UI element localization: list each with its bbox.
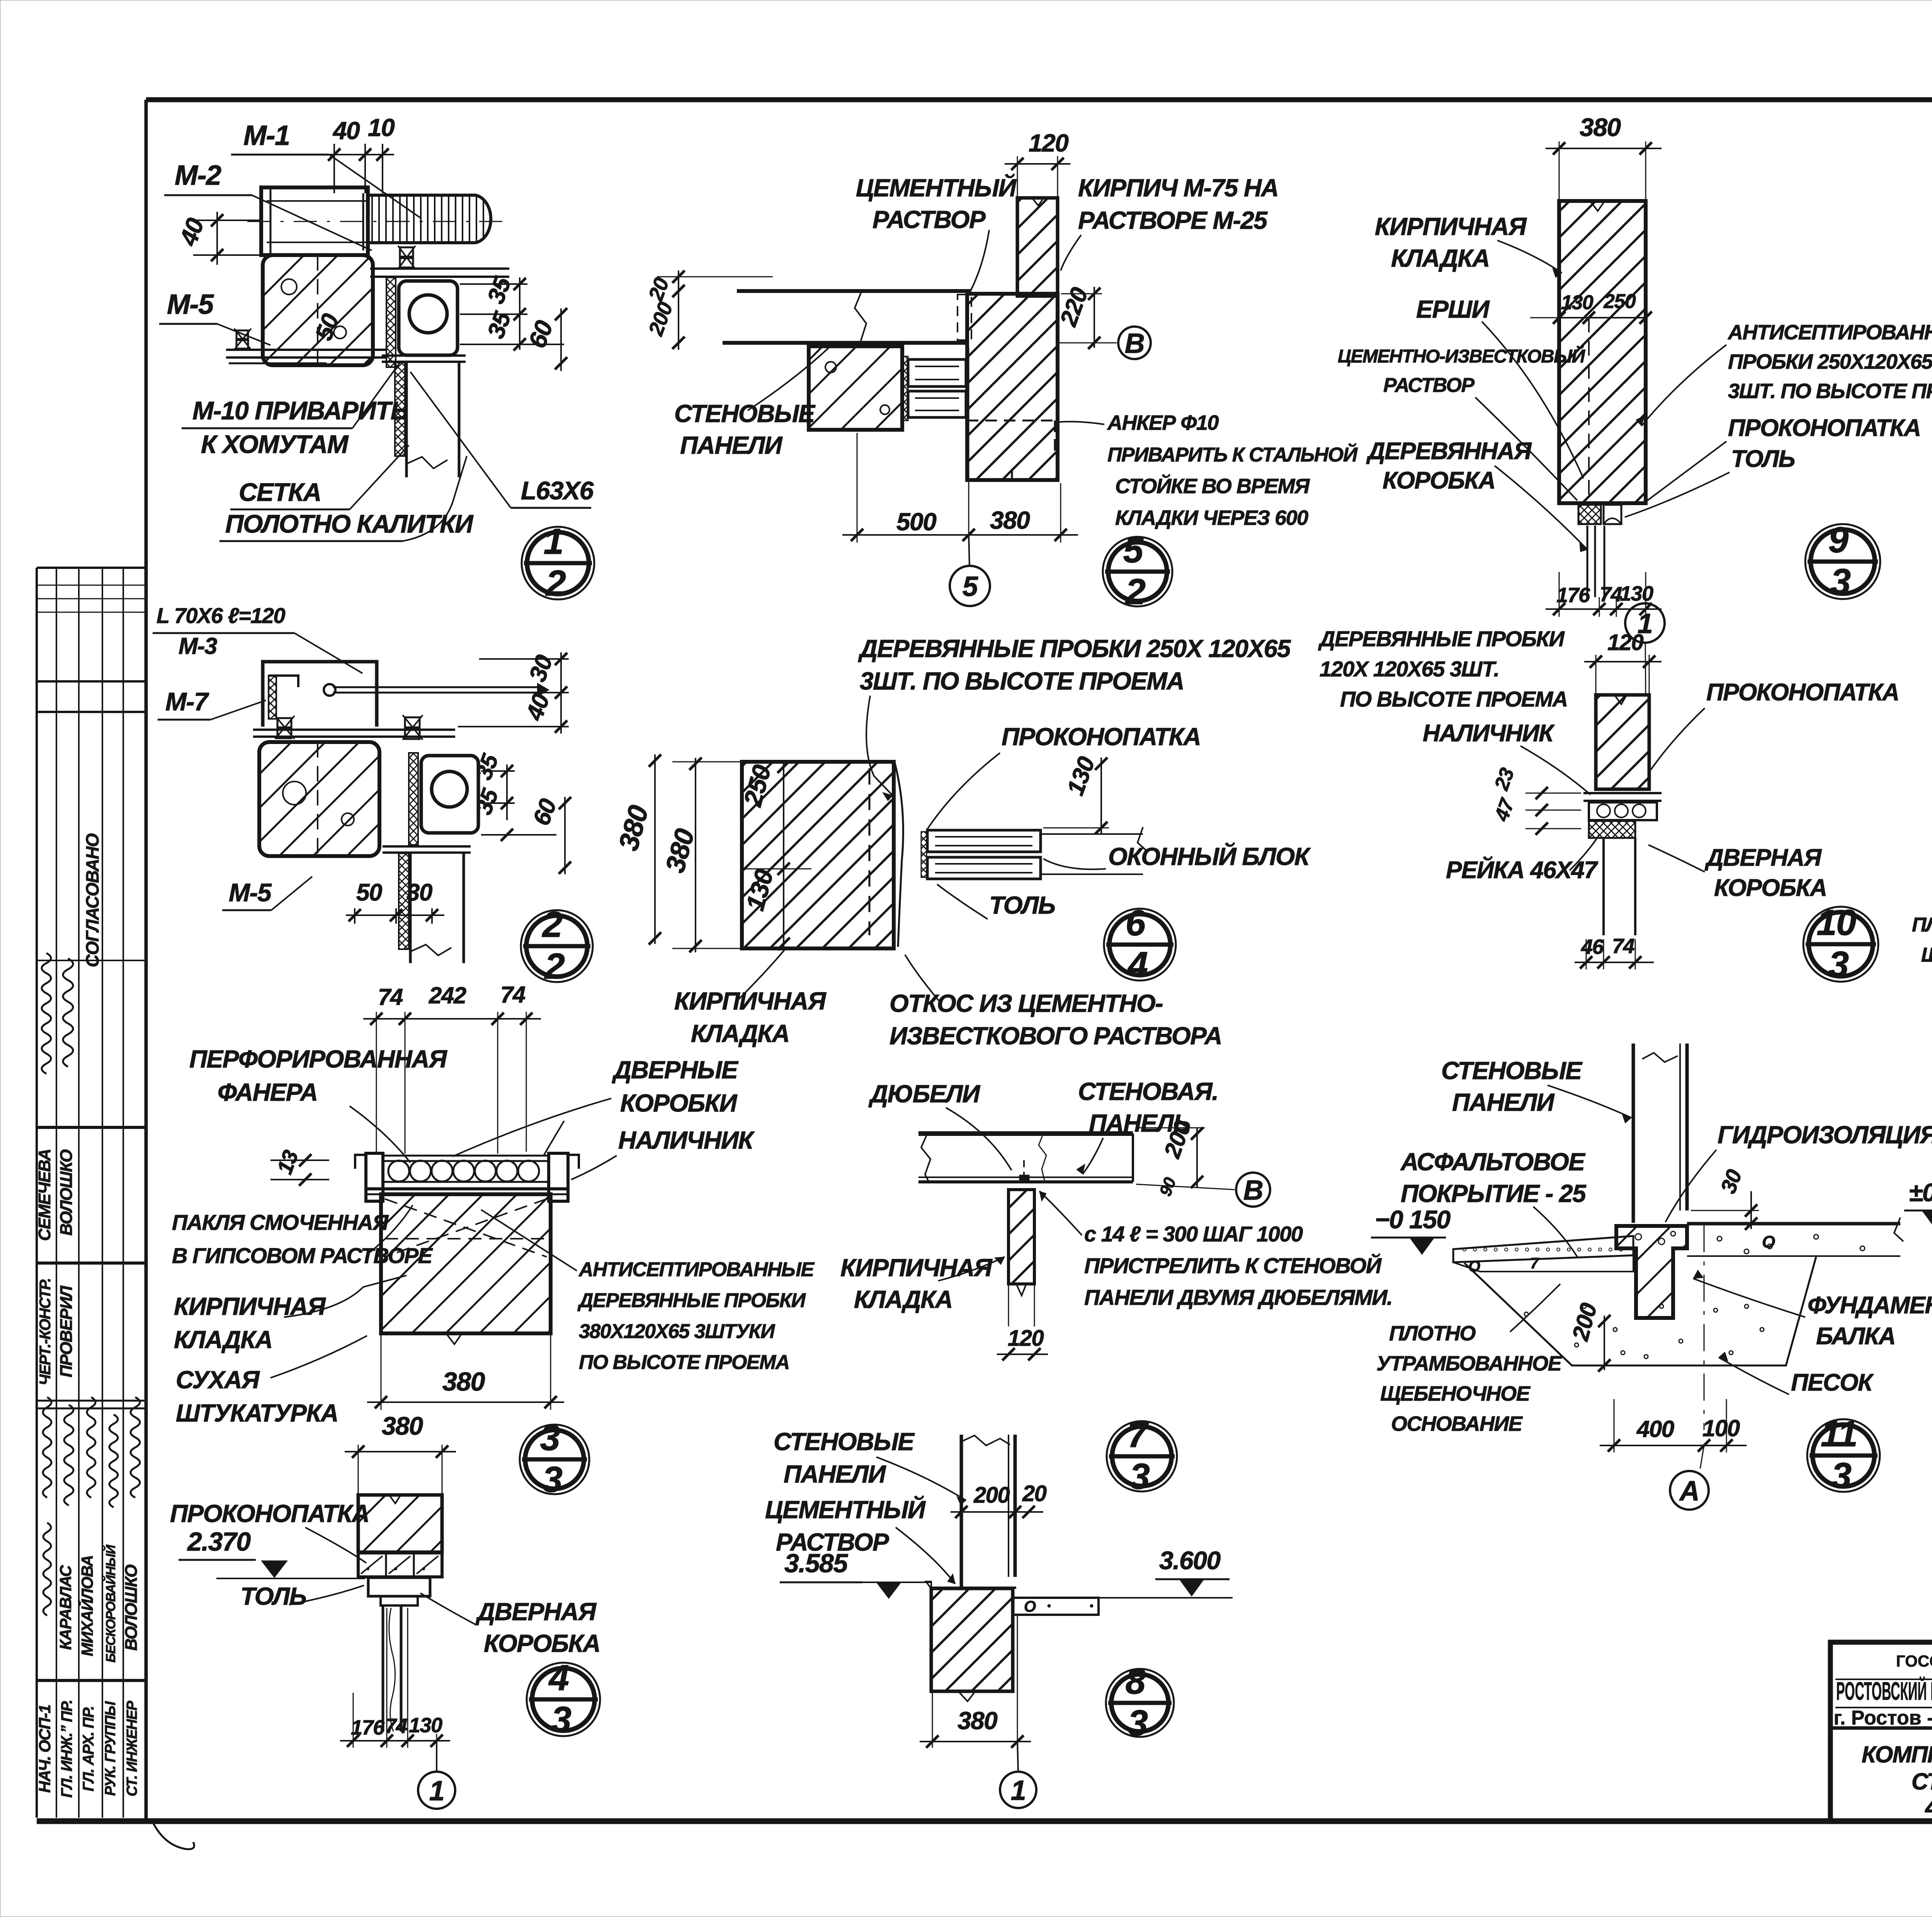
- detail 2: bubble 2/2: [521, 910, 593, 982]
- svg-text:3.600: 3.600: [1159, 1546, 1221, 1575]
- detail 5: window frame members: [908, 359, 966, 386]
- svg-text:КИРПИЧНАЯ: КИРПИЧНАЯ: [1375, 213, 1527, 240]
- svg-text:ПАНЕЛИ: ПАНЕЛИ: [784, 1460, 886, 1488]
- svg-text:КЛАДКА: КЛАДКА: [691, 1020, 789, 1047]
- detail 3: door head assembly: [355, 1155, 366, 1169]
- svg-text:ОКОННЫЙ БЛОК: ОКОННЫЙ БЛОК: [1108, 842, 1311, 870]
- detail 1: gate post below: [382, 354, 466, 357]
- svg-text:1: 1: [1011, 1775, 1026, 1806]
- svg-text:ВОЛОШКО: ВОЛОШКО: [57, 1149, 76, 1236]
- svg-text:ГОССТРОЙ СССР: ГОССТРОЙ СССР: [1896, 1651, 1932, 1670]
- svg-text:.: .: [366, 1556, 370, 1573]
- svg-text:АНТИСЕПТИРОВАННЫЕ: АНТИСЕПТИРОВАННЫЕ: [1727, 321, 1932, 344]
- svg-text:ПОКРЫТИЕ - 25: ПОКРЫТИЕ - 25: [1401, 1180, 1587, 1207]
- title block org cell divider: [1830, 1726, 1932, 1730]
- detail 6: bubble 6/4: [1104, 909, 1176, 981]
- detail 5: axis line to node B: [1058, 342, 1117, 344]
- detail 11: base course under asphalt: [1453, 1255, 1633, 1272]
- detail 5: bubble 5/2: [1103, 537, 1172, 606]
- detail 2: tie rod: [333, 686, 538, 688]
- svg-text:СТЕНОВЫЕ: СТЕНОВЫЕ: [674, 400, 816, 427]
- svg-text:380Х120Х65 3ШТУКИ: 380Х120Х65 3ШТУКИ: [579, 1320, 776, 1343]
- svg-text:ШТУКАТУРКА: ШТУКАТУРКА: [176, 1399, 338, 1427]
- detail 11: foundation beam (hatched): [1616, 1226, 1687, 1318]
- detail 7: wall panel section: [918, 1131, 1133, 1136]
- svg-text:М-5: М-5: [229, 878, 272, 907]
- svg-text:ПАКЛЯ СМОЧЕННАЯ: ПАКЛЯ СМОЧЕННАЯ: [172, 1210, 389, 1234]
- detail 8: step block (hatched): [931, 1588, 1013, 1691]
- svg-text:КОРОБКА: КОРОБКА: [1383, 467, 1495, 494]
- svg-text:М-3: М-3: [179, 633, 217, 659]
- svg-text:ДВЕРНЫЕ: ДВЕРНЫЕ: [612, 1056, 739, 1084]
- stamp strip row line: [37, 1262, 146, 1265]
- detail 1: bubble 1/2: [522, 527, 594, 599]
- svg-text:2: 2: [1125, 571, 1146, 612]
- svg-text:НАЛИЧНИК: НАЛИЧНИК: [1423, 720, 1555, 747]
- svg-text:3: 3: [1829, 944, 1849, 984]
- svg-text:ЧЕРТ.-КОНСТР.: ЧЕРТ.-КОНСТР.: [37, 1279, 54, 1386]
- detail 11: axis line and node A: [1704, 1225, 1705, 1430]
- detail 9: brick wall (hatched): [1559, 201, 1646, 503]
- detail 8: roof slab strip: [1013, 1598, 1099, 1615]
- svg-text:ПЕСОК: ПЕСОК: [1791, 1369, 1874, 1396]
- svg-text:ДЮБЕЛИ: ДЮБЕЛИ: [868, 1080, 981, 1108]
- stamp name: Левицкий (script): [43, 1523, 51, 1616]
- svg-text:4К-30А: 4К-30А: [1924, 1793, 1932, 1821]
- svg-text:ФАНЕРА: ФАНЕРА: [218, 1078, 318, 1106]
- svg-text:КИРПИЧНАЯ: КИРПИЧНАЯ: [840, 1254, 993, 1282]
- detail 2: base bolts right: [405, 717, 420, 727]
- detail 5: wall panel (plan): [737, 289, 971, 293]
- svg-text:ГЛ. АРХ. ПР.: ГЛ. АРХ. ПР.: [80, 1706, 97, 1791]
- svg-text:КЛАДКА: КЛАДКА: [854, 1285, 952, 1313]
- svg-text:СТЕНОВАЯ.: СТЕНОВАЯ.: [1078, 1078, 1218, 1105]
- svg-text:8: 8: [1126, 1661, 1146, 1701]
- svg-text:ТОЛЬ: ТОЛЬ: [240, 1582, 306, 1610]
- svg-text:6: 6: [1126, 902, 1146, 943]
- svg-text:М-5: М-5: [167, 289, 214, 320]
- detail 5: node circle B: [1118, 327, 1151, 359]
- detail 1: gasket strip: [386, 278, 396, 367]
- svg-text:г. Ростов - на - Дону 1969 г.: г. Ростов - на - Дону 1969 г.: [1833, 1707, 1932, 1729]
- detail 7: axis to node B: [1136, 1184, 1235, 1190]
- svg-text:с 14 ℓ = 300 ШАГ 1000: с 14 ℓ = 300 ШАГ 1000: [1084, 1222, 1303, 1246]
- svg-text:НАЧ. ОСП-1: НАЧ. ОСП-1: [36, 1705, 54, 1793]
- svg-text:1: 1: [429, 1776, 444, 1806]
- svg-text:КЛАДКА: КЛАДКА: [174, 1326, 272, 1353]
- svg-text:В: В: [1125, 328, 1145, 359]
- detail 4: node circle 1: [436, 1741, 437, 1772]
- svg-text:М-10 ПРИВАРИТЬ: М-10 ПРИВАРИТЬ: [192, 396, 408, 425]
- detail 4: wood plugs row: [358, 1553, 442, 1577]
- detail 3: brick wall below head (hatched): [381, 1194, 551, 1333]
- svg-text:ПАНЕЛИ ДВУМЯ ДЮБЕЛЯМИ.: ПАНЕЛИ ДВУМЯ ДЮБЕЛЯМИ.: [1084, 1285, 1392, 1309]
- detail 1: channel beam M-1 section: [261, 187, 368, 255]
- svg-text:10: 10: [1816, 902, 1856, 943]
- title block outer box: [1830, 1642, 1932, 1821]
- detail 8: node circle 1: [1017, 1742, 1018, 1771]
- svg-text:ТОЛЬ: ТОЛЬ: [989, 891, 1055, 919]
- svg-text:СТЕНОВЫЕ: СТЕНОВЫЕ: [1441, 1057, 1583, 1084]
- svg-text:АСФАЛЬТОВОЕ: АСФАЛЬТОВОЕ: [1400, 1148, 1586, 1176]
- svg-text:СОГЛАСОВАНО: СОГЛАСОВАНО: [82, 833, 102, 967]
- svg-text:ДВЕРНАЯ: ДВЕРНАЯ: [1704, 844, 1822, 871]
- svg-text:ДЕРЕВЯННЫЕ ПРОБКИ: ДЕРЕВЯННЫЕ ПРОБКИ: [1318, 627, 1565, 651]
- svg-text:РАСТВОРЕ М-25: РАСТВОРЕ М-25: [1078, 206, 1268, 234]
- svg-text:ПРОВЕРИЛ: ПРОВЕРИЛ: [57, 1285, 76, 1377]
- detail 10: jamb assembly: [1583, 792, 1662, 794]
- svg-text:176: 176: [1556, 584, 1590, 607]
- svg-text:10: 10: [368, 114, 395, 141]
- stamp strip column line 2: [78, 568, 80, 1818]
- svg-text:2: 2: [545, 563, 566, 603]
- detail 8: bottom break: [931, 1691, 1013, 1701]
- svg-text:ПЛОТНО: ПЛОТНО: [1389, 1322, 1476, 1345]
- svg-text:7: 7: [1128, 1414, 1149, 1455]
- svg-text:3ШТ. ПО ВЫСОТЕ ПРОЕМА: 3ШТ. ПО ВЫСОТЕ ПРОЕМА: [1728, 380, 1932, 403]
- detail 7: node circle B: [1236, 1173, 1270, 1207]
- svg-text:ОТКОС ИЗ ЦЕМЕНТНО-: ОТКОС ИЗ ЦЕМЕНТНО-: [889, 989, 1163, 1017]
- svg-text:КИРПИЧНАЯ: КИРПИЧНАЯ: [174, 1292, 326, 1320]
- svg-text:В: В: [1243, 1175, 1263, 1206]
- svg-text:380: 380: [442, 1367, 485, 1396]
- svg-text:380: 380: [382, 1411, 423, 1440]
- svg-text:ДЕРЕВЯННЫЕ ПРОБКИ: ДЕРЕВЯННЫЕ ПРОБКИ: [577, 1289, 806, 1312]
- svg-text:74: 74: [500, 982, 526, 1008]
- detail 2: hinge eye plate: [421, 756, 478, 833]
- svg-text:130: 130: [409, 1714, 442, 1737]
- svg-text:НАЛИЧНИК: НАЛИЧНИК: [618, 1126, 755, 1154]
- svg-text:11: 11: [1821, 1413, 1857, 1454]
- svg-text:3: 3: [551, 1699, 571, 1740]
- svg-text:ПРОКОНОПАТКА: ПРОКОНОПАТКА: [170, 1500, 369, 1527]
- svg-text:СТАНЦИЯ: СТАНЦИЯ: [1912, 1769, 1932, 1794]
- svg-text:ПО ВЫСОТЕ ПРОЕМА: ПО ВЫСОТЕ ПРОЕМА: [579, 1351, 789, 1374]
- svg-text:ЩЕБЕНОЧНОЕ: ЩЕБЕНОЧНОЕ: [1380, 1382, 1531, 1405]
- detail 3: bottom break line: [381, 1334, 551, 1344]
- svg-text:46: 46: [1581, 935, 1604, 958]
- svg-text:120: 120: [1607, 630, 1644, 655]
- svg-text:СЕТКА: СЕТКА: [239, 478, 321, 506]
- svg-text:А: А: [1679, 1476, 1699, 1507]
- stamp strip row line: [37, 960, 146, 961]
- svg-text:ВОЛОШКО: ВОЛОШКО: [122, 1565, 141, 1651]
- svg-text:176: 176: [351, 1716, 385, 1739]
- svg-text:РЕЙКА 46Х47: РЕЙКА 46Х47: [1446, 856, 1598, 884]
- svg-text:КОРОБКА: КОРОБКА: [1714, 875, 1827, 901]
- svg-text:2: 2: [544, 946, 565, 986]
- stamp signature Волошко (script): [63, 958, 73, 1067]
- svg-text:1: 1: [544, 521, 563, 562]
- svg-text:3: 3: [1832, 1455, 1852, 1496]
- svg-text:ПРОКОНОПАТКА: ПРОКОНОПАТКА: [1002, 723, 1201, 751]
- svg-text:АНКЕР Ф10: АНКЕР Ф10: [1107, 411, 1219, 434]
- svg-text:РУК. ГРУППЫ: РУК. ГРУППЫ: [102, 1701, 119, 1796]
- svg-text:СТОЙКЕ ВО ВРЕМЯ: СТОЙКЕ ВО ВРЕМЯ: [1115, 474, 1310, 498]
- svg-text:ГИДРОИЗОЛЯЦИЯ: ГИДРОИЗОЛЯЦИЯ: [1718, 1121, 1932, 1149]
- detail 11: bubble 11/3: [1807, 1419, 1880, 1492]
- svg-text:БЕСКОРОВАЙНЫЙ: БЕСКОРОВАЙНЫЙ: [103, 1544, 118, 1662]
- detail 10: brick pier (hatched): [1596, 695, 1649, 789]
- detail 2: bracket base plate: [253, 729, 455, 731]
- svg-text:380: 380: [990, 506, 1030, 534]
- detail 11: asphalt wedge left: [1453, 1236, 1633, 1262]
- detail 1: clamp plate under beam: [370, 267, 509, 270]
- stamp signature row 2 scripts: [43, 1397, 51, 1498]
- svg-text:ФУНДАМЕНТНАЯ: ФУНДАМЕНТНАЯ: [1808, 1292, 1932, 1319]
- svg-text:100: 100: [1702, 1415, 1740, 1441]
- svg-text:М-7: М-7: [165, 687, 209, 716]
- svg-text:3: 3: [540, 1417, 560, 1458]
- svg-text:ПРИСТРЕЛИТЬ К СТЕНОВОЙ: ПРИСТРЕЛИТЬ К СТЕНОВОЙ: [1084, 1253, 1382, 1278]
- detail 8: wall panel section: [960, 1435, 963, 1588]
- detail 5: bottom edge break: [967, 470, 1058, 480]
- svg-text:120: 120: [1029, 129, 1068, 157]
- svg-text:9: 9: [1828, 519, 1849, 560]
- svg-text:АНТИСЕПТИРОВАННЫЕ: АНТИСЕПТИРОВАННЫЕ: [578, 1258, 815, 1281]
- detail 5: masonry mass (hatched): [967, 294, 1058, 480]
- svg-text:СЕМЕЧЕВА: СЕМЕЧЕВА: [35, 1149, 54, 1241]
- svg-text:ПАНЕЛИ: ПАНЕЛИ: [1452, 1088, 1555, 1116]
- svg-text:ЦЕМЕНТНЫЙ: ЦЕМЕНТНЫЙ: [856, 173, 1017, 202]
- svg-text:МИХАЙЛОВА: МИХАЙЛОВА: [77, 1556, 96, 1657]
- svg-text:2: 2: [542, 904, 563, 945]
- svg-text:КЛАДКА: КЛАДКА: [1391, 244, 1490, 272]
- svg-text:КИРПИЧ М-75 НА: КИРПИЧ М-75 НА: [1078, 174, 1278, 202]
- detail 4: door frame head: [368, 1578, 430, 1596]
- left stamp strip outer lines: [37, 567, 146, 569]
- svg-text:74: 74: [1612, 935, 1635, 958]
- svg-text:500: 500: [896, 508, 936, 536]
- svg-text:СУХАЯ: СУХАЯ: [176, 1366, 260, 1394]
- detail 9: door frame below: [1587, 526, 1588, 597]
- sheet frame border: [146, 97, 1932, 102]
- svg-text:20: 20: [1022, 1481, 1047, 1506]
- svg-text:130: 130: [1561, 291, 1594, 314]
- stamp strip row line: [37, 680, 146, 683]
- detail 2: bracket channel: [263, 662, 377, 727]
- stamp strip double row line: [37, 1400, 146, 1402]
- stamp strip column line 4: [122, 568, 124, 1818]
- detail 2: base bolts left: [277, 718, 291, 727]
- detail 4: brick wall (hatched): [358, 1495, 442, 1552]
- svg-text:М-2: М-2: [175, 160, 221, 191]
- detail 10: leader from node circle: [1645, 643, 1646, 696]
- svg-text:130: 130: [1620, 582, 1653, 605]
- detail 1: clamp bolts: [400, 247, 413, 257]
- stamp signature Семечева (script): [42, 953, 51, 1074]
- signature flourish under frame: [153, 1822, 194, 1849]
- detail 6: plaster reveal edge: [895, 763, 903, 947]
- detail 6: window block section: [927, 830, 1041, 852]
- svg-text:ИЗВЕСТКОВОГО РАСТВОРА: ИЗВЕСТКОВОГО РАСТВОРА: [889, 1022, 1222, 1050]
- svg-text:ПРОКОНОПАТКА: ПРОКОНОПАТКА: [1728, 415, 1921, 441]
- detail 6: top extension line: [672, 761, 742, 763]
- detail 10: door frame below: [1602, 838, 1605, 935]
- svg-text:74: 74: [1600, 583, 1622, 606]
- detail 2: gasket strip: [409, 753, 418, 845]
- detail 2: gate post below: [383, 845, 471, 848]
- detail 10: bubble 10/3: [1803, 907, 1878, 982]
- svg-text:3.585: 3.585: [784, 1549, 848, 1578]
- svg-text:40: 40: [332, 117, 360, 145]
- svg-text:М-1: М-1: [243, 120, 290, 151]
- svg-text:ДЕРЕВЯННАЯ: ДЕРЕВЯННАЯ: [1366, 438, 1532, 465]
- svg-text:КЛАДКИ ЧЕРЕЗ 600: КЛАДКИ ЧЕРЕЗ 600: [1115, 506, 1308, 529]
- svg-text:ПАНЕЛИ: ПАНЕЛИ: [680, 431, 783, 459]
- stamp strip row line: [37, 711, 146, 713]
- svg-text:L63Х6: L63Х6: [521, 476, 594, 505]
- svg-text:120Х 120Х65 3ШТ.: 120Х 120Х65 3ШТ.: [1320, 657, 1499, 681]
- svg-text:О: О: [1024, 1598, 1036, 1615]
- detail 2: angle insert with hatch: [269, 676, 276, 719]
- svg-text:400: 400: [1636, 1416, 1674, 1442]
- svg-text:±0.000: ±0.000: [1909, 1178, 1932, 1207]
- detail 6: bottom extension line: [672, 948, 742, 949]
- svg-text:250: 250: [1603, 290, 1636, 313]
- svg-text:3: 3: [1130, 1456, 1150, 1496]
- svg-text:7: 7: [1530, 1255, 1539, 1272]
- svg-text:БАЛКА: БАЛКА: [1816, 1323, 1895, 1350]
- svg-text:120: 120: [1008, 1326, 1044, 1351]
- svg-text:КОМПРЕССОРНАЯ: КОМПРЕССОРНАЯ: [1862, 1742, 1932, 1767]
- detail 8: bubble 8/3: [1106, 1669, 1174, 1737]
- svg-text:РАСТВОР: РАСТВОР: [1383, 374, 1475, 397]
- detail 2: concrete post section (hatched): [259, 742, 379, 856]
- svg-text:380: 380: [957, 1707, 997, 1735]
- svg-text:КОРОБКИ: КОРОБКИ: [620, 1089, 738, 1117]
- detail 5: cement joint dashed: [957, 295, 971, 340]
- svg-text:КАРАВЛАС: КАРАВЛАС: [56, 1565, 75, 1650]
- detail 1: bottom angle bracket: [226, 349, 387, 351]
- svg-text:ЩЕБЕНОЧНОЕ ОСНОВАНИЕ: ЩЕБЕНОЧНОЕ ОСНОВАНИЕ: [1921, 944, 1932, 966]
- svg-text:200: 200: [973, 1483, 1010, 1508]
- detail 7: anchor plug: [1019, 1175, 1029, 1183]
- svg-text:ПРИВАРИТЬ К СТАЛЬНОЙ: ПРИВАРИТЬ К СТАЛЬНОЙ: [1107, 443, 1358, 466]
- svg-text:2.370: 2.370: [187, 1527, 251, 1556]
- detail 8: bubble 7/3: [1107, 1421, 1177, 1491]
- svg-text:ЦЕМЕНТНЫЙ: ЦЕМЕНТНЫЙ: [765, 1495, 926, 1524]
- svg-text:5: 5: [1123, 529, 1144, 570]
- svg-text:3: 3: [1128, 1702, 1148, 1743]
- svg-text:4: 4: [548, 1657, 569, 1698]
- svg-text:50: 50: [356, 879, 382, 906]
- svg-text:КОРОБКА: КОРОБКА: [484, 1629, 600, 1657]
- stamp strip column line 1: [56, 568, 57, 1818]
- svg-text:380: 380: [1580, 113, 1621, 141]
- svg-text:.: .: [394, 1556, 398, 1573]
- detail 9: bubble 9/3: [1805, 524, 1880, 599]
- detail 8: ledge and mortar joint: [930, 1587, 1016, 1589]
- detail 9: node circle 1: [1625, 603, 1665, 643]
- svg-text:ПО ВЫСОТЕ ПРОЕМА: ПО ВЫСОТЕ ПРОЕМА: [1340, 687, 1568, 711]
- svg-text:L 70Х6 ℓ=120: L 70Х6 ℓ=120: [156, 603, 285, 628]
- svg-text:ЕРШИ: ЕРШИ: [1416, 295, 1490, 323]
- svg-text:О: О: [1762, 1233, 1775, 1251]
- svg-text:3ШТ. ПО ВЫСОТЕ ПРОЕМА: 3ШТ. ПО ВЫСОТЕ ПРОЕМА: [860, 667, 1184, 695]
- detail 1: corrugated hose: [368, 195, 491, 243]
- svg-text:В ГИПСОВОМ РАСТВОРЕ: В ГИПСОВОМ РАСТВОРЕ: [172, 1243, 433, 1268]
- svg-text:ОСНОВАНИЕ: ОСНОВАНИЕ: [1391, 1412, 1523, 1435]
- detail 6: sill lines to right: [1041, 833, 1143, 835]
- svg-text:ПРОКОНОПАТКА: ПРОКОНОПАТКА: [1706, 679, 1899, 706]
- svg-text:−0 150: −0 150: [1375, 1205, 1451, 1234]
- detail 5: node circle 5: [969, 535, 969, 566]
- stamp strip row line: [37, 1679, 146, 1682]
- svg-text:ТОЛЬ: ТОЛЬ: [1731, 446, 1795, 472]
- svg-text:ДВЕРНАЯ: ДВЕРНАЯ: [475, 1598, 597, 1626]
- svg-text:74: 74: [385, 1714, 408, 1738]
- detail 5: anchor dashed: [967, 420, 1055, 422]
- svg-text:СТ. ИНЖЕНЕР: СТ. ИНЖЕНЕР: [124, 1701, 140, 1796]
- stamp strip row line: [37, 1126, 146, 1129]
- detail 7: brick pier below (hatched): [1009, 1190, 1034, 1284]
- svg-text:242: 242: [429, 982, 466, 1008]
- svg-text:ПЛОТНО УТРАМБОВАННОЕ: ПЛОТНО УТРАМБОВАННОЕ: [1912, 914, 1932, 936]
- svg-text:3: 3: [543, 1459, 563, 1500]
- detail 1: beam centre line: [247, 221, 502, 222]
- svg-text:РАСТВОР: РАСТВОР: [872, 206, 986, 233]
- svg-text:РОСТОВСКИЙ ПРОМСТРОЙНИИПРОЕКТ: РОСТОВСКИЙ ПРОМСТРОЙНИИПРОЕКТ: [1836, 1676, 1932, 1705]
- detail 6: brick jamb (hatched): [742, 762, 894, 948]
- svg-text:СТЕНОВЫЕ: СТЕНОВЫЕ: [774, 1428, 915, 1456]
- detail 4: door leaf with grain: [382, 1605, 384, 1731]
- svg-text:3: 3: [1831, 561, 1851, 602]
- stamp strip column line 3: [102, 568, 103, 1818]
- svg-text:ПОЛОТНО КАЛИТКИ: ПОЛОТНО КАЛИТКИ: [225, 509, 474, 538]
- svg-text:ПЕРФОРИРОВАННАЯ: ПЕРФОРИРОВАННАЯ: [189, 1045, 447, 1073]
- svg-text:ГЛ. ИНЖ.” ПР.: ГЛ. ИНЖ.” ПР.: [58, 1700, 75, 1798]
- svg-text:74: 74: [378, 984, 403, 1010]
- detail 11: floor slab right: [1687, 1222, 1900, 1226]
- detail 5: panel end block (hatched): [809, 346, 902, 430]
- svg-text:4: 4: [1127, 944, 1148, 985]
- svg-text:.: .: [422, 1556, 426, 1573]
- stamp strip thin rows: [37, 585, 146, 586]
- svg-text:К ХОМУТАМ: К ХОМУТАМ: [201, 430, 349, 458]
- svg-text:ПРОБКИ 250Х120Х65: ПРОБКИ 250Х120Х65: [1728, 350, 1932, 373]
- svg-text:КИРПИЧНАЯ: КИРПИЧНАЯ: [674, 987, 827, 1015]
- svg-text:5: 5: [963, 571, 978, 602]
- svg-text:УТРАМБОВАННОЕ: УТРАМБОВАННОЕ: [1376, 1352, 1563, 1375]
- detail 4: bubble 4/3: [527, 1663, 600, 1736]
- svg-text:ЦЕМЕНТНО-ИЗВЕСТКОВЫЙ: ЦЕМЕНТНО-ИЗВЕСТКОВЫЙ: [1338, 346, 1586, 367]
- detail 5: brick pier upper (hatched): [1017, 198, 1058, 296]
- detail 3: bubble 3/3: [520, 1425, 589, 1494]
- detail 1: concrete post section (hatched): [263, 255, 373, 365]
- detail 11: wall panel above: [1632, 1044, 1635, 1223]
- detail 9: frame bottom details: [1559, 502, 1646, 505]
- svg-text:ДЕРЕВЯННЫЕ ПРОБКИ 250Х 120Х6: ДЕРЕВЯННЫЕ ПРОБКИ 250Х 120Х65: [858, 635, 1291, 662]
- detail 11: ground trapezoid: [1464, 1257, 1816, 1365]
- detail 1: hinge eye plate: [399, 281, 457, 355]
